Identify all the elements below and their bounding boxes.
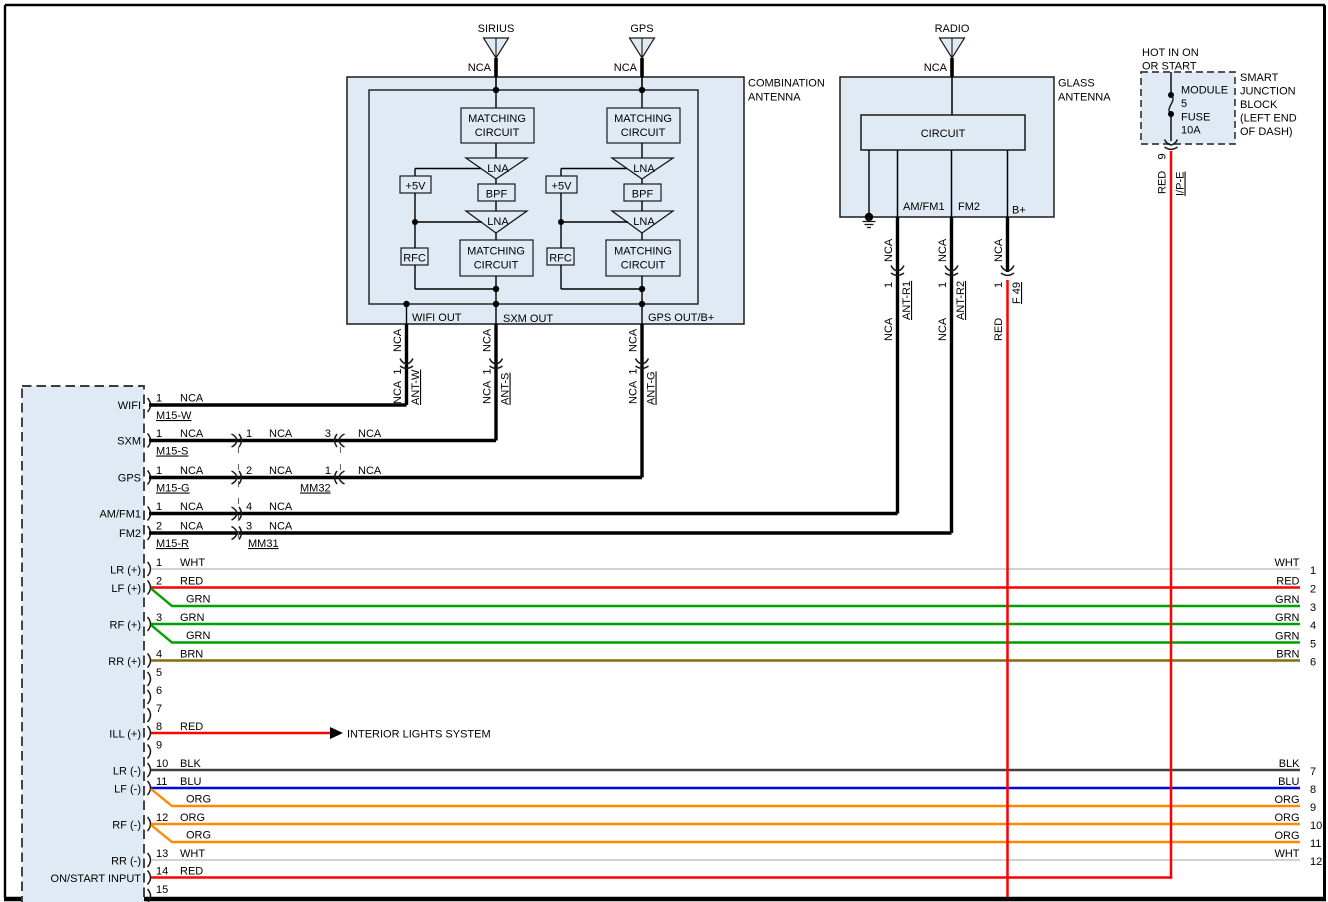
label COMBINATION ANTENNA: [748, 78, 825, 104]
connector MM31 am/fm1: [232, 507, 242, 520]
svg-text:ORG: ORG: [186, 794, 211, 806]
pin row GPS: [118, 465, 204, 485]
pin row RF (+): [110, 612, 205, 632]
pin row FM2: [119, 521, 204, 541]
label GLASS ANTENNA: [1058, 78, 1111, 104]
svg-text:SXM OUT: SXM OUT: [503, 313, 553, 325]
wire lna3 to bpf2: [641, 179, 643, 184]
svg-text:1: 1: [325, 465, 331, 477]
svg-text:NCA: NCA: [468, 62, 492, 74]
svg-text:M15-W: M15-W: [156, 410, 192, 422]
label SMART JUNCTION BLOCK: [1240, 72, 1297, 138]
node sirius feed junction: [493, 87, 499, 93]
pin row SXM: [117, 428, 204, 448]
wire AM/FM1 inside glass box: [897, 150, 899, 217]
svg-text:10: 10: [156, 758, 168, 770]
wire fuse RED vertical: [1170, 151, 1173, 879]
svg-text:B+: B+: [1012, 205, 1026, 217]
svg-text:NCA: NCA: [883, 238, 895, 262]
svg-text:RF (-): RF (-): [112, 820, 141, 832]
svg-text:2: 2: [156, 521, 162, 533]
wire rail to lna2 (sirius): [415, 221, 482, 223]
pin row LF (+): [111, 576, 203, 596]
wire LF (+) RED: [151, 586, 1300, 588]
wire +5V rail (gps): [560, 193, 562, 248]
wire mc4 output: [641, 276, 643, 304]
wire rfc to output (gps): [560, 265, 562, 289]
pin row 9 empty: [148, 740, 163, 759]
node wifi out tap: [403, 301, 409, 307]
svg-text:SXM: SXM: [117, 436, 141, 448]
svg-text:9: 9: [1310, 802, 1316, 814]
right label BLU 8: [1278, 776, 1316, 796]
connector MM31 sxm: [232, 434, 242, 447]
svg-text:6: 6: [156, 685, 162, 697]
svg-text:5: 5: [1310, 639, 1316, 651]
wire rfc to output (sirius): [414, 265, 416, 289]
wire SXM OUT drop: [495, 304, 497, 324]
connector F-49 inline: [1001, 266, 1014, 276]
pin row RR (-): [111, 848, 205, 868]
right label WHT 1: [1274, 557, 1316, 577]
amplifier LNA (sirius 1): [466, 158, 527, 179]
svg-text:WHT: WHT: [180, 848, 205, 860]
svg-text:NCA 1: NCA 1: [392, 369, 404, 404]
svg-text:OF DASH): OF DASH): [1240, 126, 1293, 138]
svg-text:JUNCTION: JUNCTION: [1240, 86, 1296, 98]
wire +5V rail (sirius): [414, 193, 416, 248]
svg-text:NCA: NCA: [180, 465, 204, 477]
svg-text:GRN: GRN: [1275, 631, 1300, 643]
svg-text:ILL (+): ILL (+): [109, 729, 141, 741]
connector ANT-G inline: [636, 359, 649, 369]
svg-text:ANTENNA: ANTENNA: [1058, 92, 1111, 104]
right label ORG 9: [1274, 794, 1316, 814]
svg-text:NCA: NCA: [924, 62, 948, 74]
pin row 5 empty: [148, 667, 163, 686]
svg-text:ANT-R2: ANT-R2: [955, 281, 967, 320]
pin row LR (-): [113, 758, 202, 778]
pin row RR (+): [108, 649, 203, 669]
svg-text:WIFI OUT: WIFI OUT: [412, 312, 462, 324]
svg-text:15: 15: [156, 884, 168, 896]
svg-text:LR (+): LR (+): [110, 565, 141, 577]
svg-text:SIRIUS: SIRIUS: [478, 23, 515, 35]
svg-text:2: 2: [156, 576, 162, 588]
svg-text:BLK: BLK: [180, 758, 201, 770]
svg-text:BLU: BLU: [180, 776, 201, 788]
svg-text:1: 1: [937, 282, 949, 288]
svg-text:MATCHING: MATCHING: [467, 246, 525, 258]
svg-text:1: 1: [883, 282, 895, 288]
wire FM2 inside glass box: [951, 150, 953, 217]
svg-text:GRN: GRN: [180, 612, 205, 624]
wire RF (-) ORG branch: [151, 825, 1300, 842]
svg-text:ORG: ORG: [186, 830, 211, 842]
svg-text:RFC: RFC: [549, 253, 572, 265]
svg-text:F 49: F 49: [1011, 282, 1023, 304]
inductor RFC (gps): [547, 248, 574, 265]
svg-text:NCA: NCA: [269, 501, 293, 513]
svg-text:OR START: OR START: [1142, 61, 1197, 73]
svg-text:RFC: RFC: [403, 253, 426, 265]
wire RF (-) ORG: [151, 823, 1300, 825]
right label WHT 12: [1274, 848, 1322, 868]
svg-text:12: 12: [1310, 856, 1322, 868]
pin row AM/FM1: [99, 501, 203, 521]
svg-text:MATCHING: MATCHING: [468, 113, 526, 125]
ground: [863, 213, 876, 228]
svg-text:6: 6: [1310, 657, 1316, 669]
svg-text:SMART: SMART: [1240, 72, 1279, 84]
pin row 6 empty: [148, 685, 163, 704]
pin row LF (-): [114, 776, 201, 796]
svg-text:1: 1: [156, 465, 162, 477]
svg-text:NCA: NCA: [392, 328, 404, 352]
wire B+ RED vertical: [1006, 280, 1009, 897]
svg-text:M15-R: M15-R: [156, 538, 189, 550]
wire MM32 dashed link: [340, 447, 342, 471]
node gps feed junction: [639, 87, 645, 93]
svg-text:RED: RED: [1157, 171, 1169, 194]
filter BPF (sirius): [478, 184, 515, 201]
pin row ILL (+): [109, 721, 203, 741]
svg-text:ORG: ORG: [1274, 794, 1299, 806]
wire RF (+) GRN branch: [151, 625, 1300, 643]
svg-text:GPS: GPS: [630, 23, 653, 35]
wire lna1 to +5V supply: [415, 168, 481, 170]
svg-text:NCA: NCA: [180, 393, 204, 405]
node +5V rail junction (sirius): [412, 219, 418, 225]
svg-text:11: 11: [1310, 838, 1321, 850]
matching circuit (sirius lower): [460, 240, 533, 276]
svg-text:LNA: LNA: [633, 163, 655, 175]
svg-text:CIRCUIT: CIRCUIT: [475, 127, 520, 139]
wire lna4 to mc4: [641, 233, 643, 240]
svg-text:GPS: GPS: [118, 473, 141, 485]
svg-text:BPF: BPF: [632, 189, 654, 201]
wire SIRIUS antenna feed: [494, 58, 498, 77]
right label ORG 11: [1274, 830, 1321, 850]
svg-text:NCA: NCA: [883, 317, 895, 341]
svg-text:LR (-): LR (-): [113, 766, 141, 778]
right label BRN 6: [1276, 649, 1316, 669]
svg-text:1: 1: [156, 428, 162, 440]
svg-text:LNA: LNA: [487, 216, 509, 228]
right label BLK 7: [1279, 758, 1316, 778]
connector MM31 gps: [232, 471, 242, 484]
svg-text:GRN: GRN: [186, 630, 211, 642]
matching circuit (gps lower): [606, 240, 680, 276]
label fuse text: [1181, 85, 1228, 137]
svg-text:10A: 10A: [1181, 125, 1201, 137]
wire B+ drop black: [1006, 217, 1009, 272]
svg-text:RR (-): RR (-): [111, 856, 141, 868]
wire SXM coax: [149, 439, 496, 442]
svg-text:MODULE: MODULE: [1181, 85, 1228, 97]
svg-text:RED: RED: [180, 576, 203, 588]
label HOT IN ON OR START: [1142, 47, 1199, 73]
svg-text:BLU: BLU: [1278, 776, 1299, 788]
svg-text:AM/FM1: AM/FM1: [903, 201, 945, 213]
wire WIFI OUT drop: [406, 304, 408, 324]
right label RED 2: [1276, 576, 1316, 596]
filter BPF (gps): [624, 184, 661, 201]
node sxm output junction: [493, 286, 499, 292]
connector ANT-W inline: [400, 359, 413, 369]
svg-text:ANTENNA: ANTENNA: [748, 92, 801, 104]
svg-text:RED: RED: [993, 318, 1005, 341]
svg-text:GRN: GRN: [1275, 612, 1300, 624]
amplifier LNA (gps 1): [612, 158, 673, 179]
node gps shield junction: [639, 301, 645, 307]
svg-text:NCA: NCA: [937, 317, 949, 341]
svg-text:NCA 1: NCA 1: [482, 369, 494, 404]
svg-text:NCA: NCA: [628, 328, 640, 352]
svg-text:5: 5: [156, 667, 162, 679]
svg-text:4: 4: [156, 649, 162, 661]
svg-text:FUSE: FUSE: [1181, 112, 1210, 124]
svg-text:8: 8: [156, 721, 162, 733]
wire radio antenna feed: [950, 58, 954, 77]
wire ON/START INPUT RED: [151, 876, 1172, 878]
svg-text:(LEFT END: (LEFT END: [1240, 113, 1297, 125]
svg-text:FM2: FM2: [119, 528, 141, 540]
wire lna2 to mc2: [495, 233, 497, 240]
fuse MODULE 5 FUSE 10A: [1168, 72, 1174, 141]
pin row 7 empty: [148, 703, 163, 722]
wire LF (-) ORG branch: [151, 789, 1300, 806]
svg-text:NCA 1: NCA 1: [628, 369, 640, 404]
svg-text:3: 3: [246, 521, 252, 533]
svg-text:9: 9: [156, 740, 162, 752]
wire RR (-) WHT: [151, 859, 1300, 861]
wire LF (-) BLU: [151, 787, 1300, 789]
power +5V (sirius): [400, 176, 431, 193]
connector MM32 gps: [335, 471, 345, 484]
svg-text:NCA: NCA: [269, 521, 293, 533]
svg-text:GRN: GRN: [1275, 594, 1300, 606]
wire bpf2 to lna4: [641, 201, 643, 211]
svg-text:+5V: +5V: [552, 181, 573, 193]
combination antenna inner shield box: [369, 90, 698, 304]
connector ANT-R1 inline: [891, 266, 904, 276]
wire mc2 output: [495, 276, 497, 304]
wire MM31 dashed link: [238, 447, 240, 538]
wire lna3 to +5V supply (gps): [561, 168, 627, 170]
svg-text:BRN: BRN: [1276, 649, 1299, 661]
antenna GPS: [630, 23, 655, 58]
svg-text:INTERIOR LIGHTS SYSTEM: INTERIOR LIGHTS SYSTEM: [347, 729, 491, 741]
svg-text:9: 9: [1157, 153, 1169, 159]
node sxm shield junction: [493, 301, 499, 307]
wire lna1 to bpf: [495, 179, 497, 184]
wire AM/FM1 coax: [149, 512, 898, 515]
svg-text:WHT: WHT: [180, 557, 205, 569]
wire FM2 drop: [950, 217, 953, 533]
wire RR (+) BRN: [151, 659, 1300, 661]
pin row WIFI: [118, 393, 204, 413]
node +5V rail junction (gps): [558, 219, 564, 225]
wire rail to lna4 (gps): [561, 221, 628, 223]
svg-text:ANT-S: ANT-S: [500, 373, 512, 405]
svg-text:MM32: MM32: [300, 483, 331, 495]
svg-text:10: 10: [1310, 820, 1322, 832]
right label ORG 10: [1274, 812, 1322, 832]
pin row 15 empty: [148, 884, 169, 902]
svg-text:NCA: NCA: [358, 428, 382, 440]
svg-text:BPF: BPF: [486, 189, 508, 201]
wire LF (+) GRN branch: [151, 589, 1300, 607]
wire mc3 to lna3: [641, 143, 643, 158]
wire bpf to lna2: [495, 201, 497, 211]
wire B+ inside glass box: [1007, 150, 1009, 217]
connector ANT-R2 inline: [945, 266, 958, 276]
svg-text:CIRCUIT: CIRCUIT: [621, 260, 666, 272]
svg-text:RED: RED: [1276, 576, 1299, 588]
radio head unit connector box: [22, 386, 144, 902]
wire AM/FM1 drop: [896, 217, 899, 514]
antenna RADIO: [935, 23, 970, 58]
svg-text:2: 2: [246, 465, 252, 477]
svg-text:8: 8: [1310, 784, 1316, 796]
inductor RFC (sirius): [401, 248, 428, 265]
svg-text:NCA: NCA: [269, 428, 293, 440]
svg-text:7: 7: [156, 703, 162, 715]
svg-text:1: 1: [156, 393, 162, 405]
pin row LR (+): [110, 557, 205, 577]
svg-text:GPS OUT/B+: GPS OUT/B+: [648, 312, 714, 324]
svg-text:MATCHING: MATCHING: [614, 113, 672, 125]
circuit block: [861, 115, 1025, 150]
wire GPS coax: [149, 476, 642, 479]
svg-text:NCA: NCA: [482, 328, 494, 352]
svg-text:RF (+): RF (+): [110, 620, 141, 632]
wire LR (-) BLK: [151, 769, 1300, 771]
svg-text:BRN: BRN: [180, 649, 203, 661]
svg-text:COMBINATION: COMBINATION: [748, 78, 825, 90]
svg-text:3: 3: [1310, 602, 1316, 614]
matching circuit (sirius upper): [461, 108, 534, 143]
combination antenna box: [347, 77, 744, 324]
svg-text:M15-S: M15-S: [156, 446, 188, 458]
wire WIFI coax: [149, 403, 407, 406]
svg-text:NCA: NCA: [614, 62, 638, 74]
svg-text:BLK: BLK: [1279, 758, 1300, 770]
wire mc1 to lna1: [495, 143, 497, 158]
svg-text:NCA: NCA: [993, 238, 1005, 262]
svg-text:MM31: MM31: [248, 538, 279, 550]
wire circuit to ground: [868, 150, 870, 217]
svg-text:FM2: FM2: [958, 201, 980, 213]
svg-text:LNA: LNA: [487, 163, 509, 175]
svg-text:HOT IN ON: HOT IN ON: [1142, 47, 1199, 59]
svg-text:1: 1: [156, 501, 162, 513]
svg-text:3: 3: [325, 428, 331, 440]
svg-text:CIRCUIT: CIRCUIT: [621, 127, 666, 139]
svg-text:GLASS: GLASS: [1058, 78, 1095, 90]
connector MM32 sxm: [335, 434, 345, 447]
svg-text:+5V: +5V: [406, 181, 427, 193]
connector ANT-S inline: [490, 359, 503, 369]
svg-text:BLOCK: BLOCK: [1240, 99, 1278, 111]
svg-text:ON/START INPUT: ON/START INPUT: [51, 873, 142, 885]
wire GPS OUT drop: [641, 304, 643, 324]
svg-text:AM/FM1: AM/FM1: [99, 509, 141, 521]
arrow to interior lights system: [330, 727, 343, 739]
svg-text:LNA: LNA: [633, 216, 655, 228]
svg-text:11: 11: [156, 776, 167, 788]
right label GRN 5: [1275, 631, 1316, 651]
svg-text:WHT: WHT: [1274, 557, 1299, 569]
svg-text:RED: RED: [180, 721, 203, 733]
wire LR (+) WHT: [151, 568, 1300, 570]
glass antenna box: [840, 77, 1054, 217]
svg-text:ORG: ORG: [180, 812, 205, 824]
svg-text:NCA: NCA: [937, 238, 949, 262]
svg-text:1: 1: [993, 282, 1005, 288]
connector I/P-E inline: [1165, 140, 1178, 150]
matching circuit (gps upper): [607, 108, 680, 143]
svg-text:RED: RED: [180, 866, 203, 878]
svg-text:NCA: NCA: [269, 465, 293, 477]
svg-text:ORG: ORG: [1274, 830, 1299, 842]
wire FM2 coax: [149, 531, 952, 534]
svg-text:NCA: NCA: [358, 465, 382, 477]
svg-text:CIRCUIT: CIRCUIT: [921, 128, 966, 140]
svg-text:ORG: ORG: [1274, 812, 1299, 824]
svg-text:ANT-G: ANT-G: [646, 371, 658, 405]
wire ILL (+) RED: [151, 732, 331, 734]
svg-text:NCA: NCA: [180, 521, 204, 533]
svg-text:RR (+): RR (+): [108, 656, 141, 668]
svg-text:1: 1: [156, 557, 162, 569]
amplifier LNA (gps 2): [612, 211, 673, 233]
svg-text:LF (+): LF (+): [111, 583, 141, 595]
node gps output junction: [639, 286, 645, 292]
antenna SIRIUS: [478, 23, 515, 58]
svg-text:NCA: NCA: [180, 428, 204, 440]
svg-text:1: 1: [1310, 565, 1316, 577]
svg-text:LF (-): LF (-): [114, 784, 141, 796]
wire into matching circuit 3: [641, 90, 643, 108]
svg-text:7: 7: [1310, 766, 1316, 778]
pin row RF (-): [112, 812, 205, 832]
wire GPS antenna feed: [640, 58, 644, 77]
connector MM31 fm2: [232, 527, 242, 540]
smart junction block box: [1141, 72, 1235, 144]
svg-text:I/P-E: I/P-E: [1175, 172, 1187, 196]
svg-text:2: 2: [1310, 584, 1316, 596]
svg-text:RADIO: RADIO: [935, 23, 970, 35]
pin row ON/START INPUT: [51, 866, 204, 886]
svg-text:4: 4: [1310, 620, 1316, 632]
svg-text:CIRCUIT: CIRCUIT: [474, 260, 519, 272]
svg-text:3: 3: [156, 612, 162, 624]
svg-text:MATCHING: MATCHING: [614, 246, 672, 258]
svg-text:ANT-W: ANT-W: [410, 369, 422, 405]
svg-text:ANT-R1: ANT-R1: [901, 281, 913, 320]
svg-text:14: 14: [156, 866, 168, 878]
svg-text:WIFI: WIFI: [118, 400, 141, 412]
svg-text:12: 12: [156, 812, 168, 824]
svg-text:WHT: WHT: [1274, 848, 1299, 860]
right label GRN 4: [1275, 612, 1316, 632]
power +5V (gps): [546, 176, 577, 193]
wire into matching circuit 1: [495, 90, 497, 108]
svg-text:13: 13: [156, 848, 168, 860]
svg-text:GRN: GRN: [186, 594, 211, 606]
